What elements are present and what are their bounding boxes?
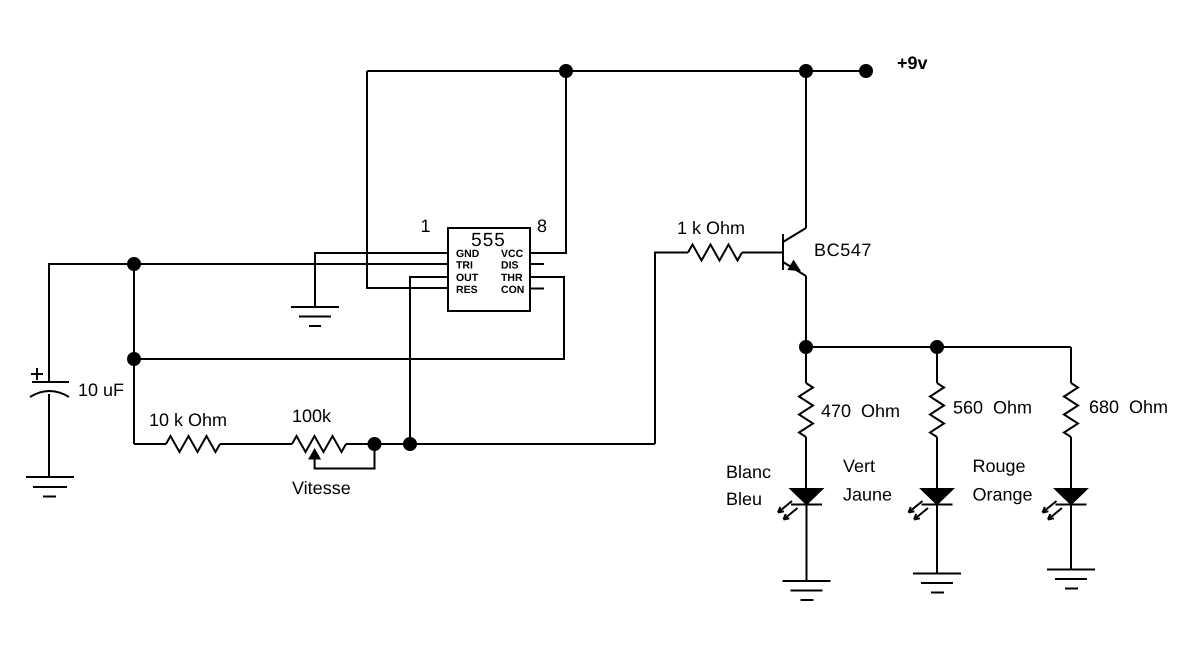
node dot TRI/timing <box>128 258 140 270</box>
svg-text:680 Ohm: 680 Ohm <box>1089 397 1168 417</box>
wire DIS stub <box>530 263 544 265</box>
svg-text:BC547: BC547 <box>814 240 872 260</box>
capacitor C1 polarity plus <box>31 368 43 380</box>
LED D3 triangle <box>1056 489 1087 504</box>
LED D1 cathode bar <box>791 504 822 506</box>
resistor R3 470 Ohm <box>799 383 813 437</box>
node dot wiper junction <box>369 438 381 450</box>
wire branch3 top <box>1070 347 1072 383</box>
svg-text:1 k Ohm: 1 k Ohm <box>677 218 745 238</box>
wire CON stub <box>530 288 544 290</box>
wire LED1 to ground <box>806 505 808 582</box>
wire collector riser <box>805 71 807 228</box>
wire +9v top rail <box>367 70 866 72</box>
svg-text:Blanc: Blanc <box>726 462 771 482</box>
LED D3 emission arrows <box>1043 501 1063 520</box>
node +9v terminal dot <box>860 65 872 77</box>
potentiometer 100k track <box>292 436 346 452</box>
ground (LED1) <box>783 581 831 600</box>
LED D2 cathode bar <box>922 504 953 506</box>
resistor R5 680 Ohm <box>1064 383 1078 437</box>
node dot THR/timing <box>128 353 140 365</box>
svg-text:THR: THR <box>501 272 523 284</box>
svg-text:Orange: Orange <box>973 485 1033 505</box>
wire R1 to potentiometer <box>220 443 292 445</box>
wire branch1 top <box>805 347 807 383</box>
LED D1 emission arrows <box>778 501 798 520</box>
LED D2 emission arrows <box>909 501 929 520</box>
wire TRI pin to capacitor node <box>49 264 448 382</box>
transistor Q1 collector <box>783 228 806 242</box>
wire R2 to base <box>742 252 783 254</box>
wire timing node vertical <box>133 264 135 444</box>
resistor R4 560 Ohm <box>930 383 944 437</box>
node junction dot rail/collector <box>800 65 812 77</box>
IC U1 555 timer body <box>448 228 530 311</box>
svg-text:OUT: OUT <box>456 272 479 284</box>
ground (near 555 GND pin) <box>291 307 339 326</box>
svg-text:Vert: Vert <box>843 456 875 476</box>
svg-text:VCC: VCC <box>501 248 524 260</box>
capacitor C1 plates <box>30 382 69 397</box>
svg-text:RES: RES <box>456 284 478 296</box>
svg-text:470 Ohm: 470 Ohm <box>821 401 900 421</box>
svg-text:Rouge: Rouge <box>973 456 1026 476</box>
wire branch2 top <box>936 347 938 383</box>
wire LED3 to ground <box>1070 505 1072 570</box>
wire LED2 to ground <box>936 505 938 574</box>
wire R5 to LED3 <box>1070 437 1072 489</box>
wire emitter to LED rail <box>805 276 807 347</box>
svg-text:Vitesse: Vitesse <box>292 478 351 498</box>
resistor R2 1 k Ohm <box>688 245 742 261</box>
node junction dot rail/VCC <box>560 65 572 77</box>
svg-text:10 k Ohm: 10 k Ohm <box>149 410 227 430</box>
svg-text:1: 1 <box>420 216 430 236</box>
svg-text:Jaune: Jaune <box>843 485 892 505</box>
ground (LED2) <box>913 574 961 593</box>
wire riser to R2 <box>655 253 688 445</box>
wire THR pin to timing node <box>134 277 564 359</box>
wire pot to OUT node <box>346 443 655 445</box>
svg-text:8: 8 <box>537 216 547 236</box>
LED D3 cathode bar <box>1056 504 1087 506</box>
svg-text:DIS: DIS <box>501 259 519 271</box>
resistor R1 10 k Ohm <box>166 436 220 452</box>
wire R3 to LED1 <box>805 437 807 489</box>
wire R4 to LED2 <box>936 437 938 489</box>
svg-text:Bleu: Bleu <box>726 489 762 509</box>
wire RES riser (pin 4 to rail) <box>367 71 448 288</box>
wire OUT pin drop <box>410 277 448 444</box>
svg-text:10 uF: 10 uF <box>78 380 124 400</box>
LED D2 triangle <box>922 489 953 504</box>
node dot OUT junction <box>404 438 416 450</box>
svg-text:+9v: +9v <box>897 53 928 73</box>
svg-text:GND: GND <box>456 248 480 260</box>
node dot rail/branch1 <box>800 341 812 353</box>
wire capacitor to ground <box>48 394 50 477</box>
potentiometer wiper arrow <box>310 450 320 459</box>
ground (LED3) <box>1047 570 1095 589</box>
LED D1 triangle <box>791 489 822 504</box>
ground (below capacitor) <box>26 477 74 497</box>
svg-text:100k: 100k <box>292 406 332 426</box>
svg-text:TRI: TRI <box>456 259 473 271</box>
wire GND pin to ground <box>315 253 448 307</box>
wire VCC drop (rail to pin 8) <box>530 71 566 253</box>
svg-text:CON: CON <box>501 284 524 296</box>
wire timing node to R1 <box>134 443 166 445</box>
svg-text:560 Ohm: 560 Ohm <box>953 398 1032 418</box>
wire LED distribution rail <box>806 346 1071 348</box>
transistor Q1 emitter <box>783 262 806 276</box>
wire wiper loop <box>315 444 375 469</box>
transistor Q1 emitter arrow <box>789 262 799 271</box>
node dot rail/branch2 <box>931 341 943 353</box>
transistor Q1 BC547 base bar <box>782 234 784 270</box>
